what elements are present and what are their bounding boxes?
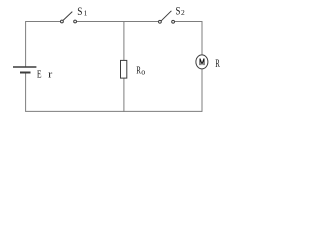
svg-text:r: r [48,68,52,80]
svg-text:1: 1 [84,8,88,17]
wire: bottom horizontal [26,110,202,112]
battery cell E [13,67,36,73]
wire: top-left horizontal from battery corner to S1 [26,22,61,67]
motor M [196,55,208,69]
wire: S2 to top-right corner then down to motor [175,22,202,56]
svg-text:R: R [215,58,220,70]
wire: top middle from S1 to S2 through node [77,21,158,23]
switch S2 [159,11,175,23]
svg-text:o: o [141,67,145,76]
wire: node on top wire down to resistor R0 [123,22,125,61]
label M inside motor [200,59,204,66]
svg-text:2: 2 [181,8,185,17]
wire: resistor R0 bottom to bottom wire [123,78,125,112]
svg-text:E: E [37,68,42,80]
switch S1 [61,12,77,23]
svg-text:S: S [77,4,82,18]
svg-text:S: S [176,4,181,18]
wire: battery bottom to bottom-left corner [25,73,27,112]
wire: motor bottom to bottom wire [201,69,203,112]
resistor R0 [121,60,127,78]
